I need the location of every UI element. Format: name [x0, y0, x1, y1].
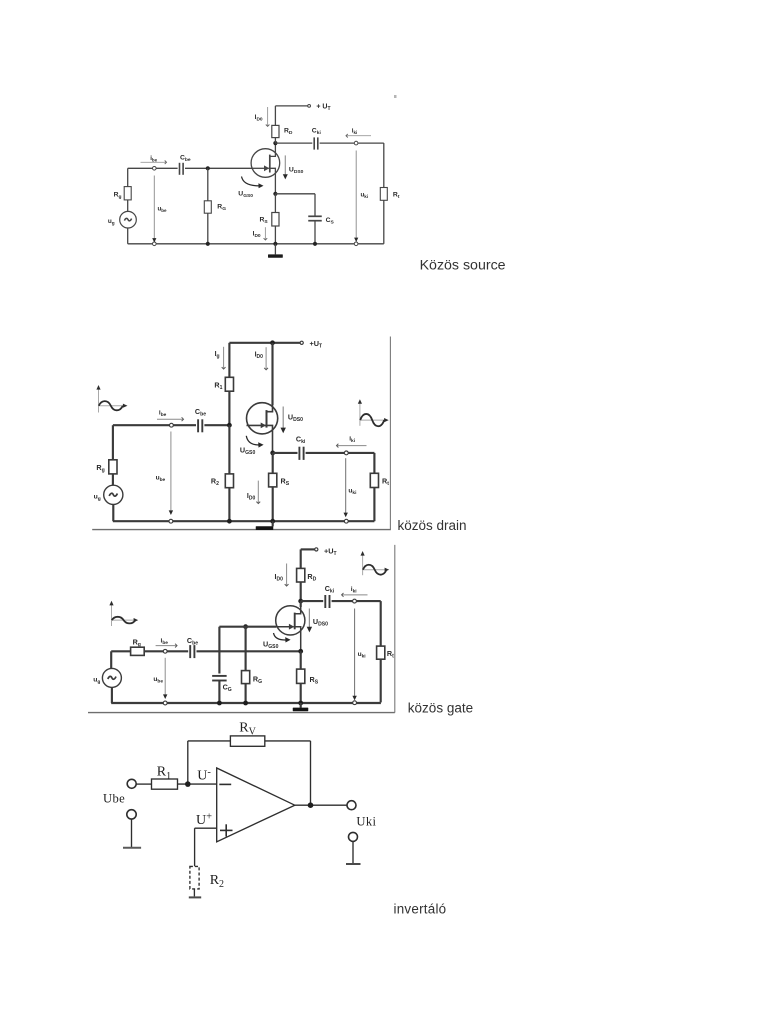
svg-text:Uki: Uki: [356, 815, 376, 829]
svg-text:invertáló: invertáló: [394, 901, 447, 916]
svg-text:Ube: Ube: [103, 792, 125, 806]
svg-text:Közös source: Közös source: [420, 257, 506, 273]
svg-text:közös drain: közös drain: [398, 518, 467, 533]
svg-text:közös gate: közös gate: [408, 701, 473, 716]
